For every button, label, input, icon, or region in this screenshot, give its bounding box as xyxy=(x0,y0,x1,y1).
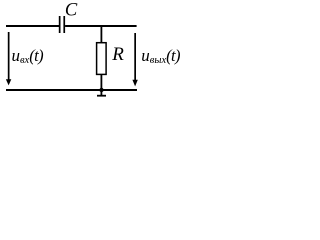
ground xyxy=(97,90,106,97)
wire: bottom (common) xyxy=(6,89,137,91)
wire: resistor top lead xyxy=(101,26,103,42)
svg-text:uвх(t): uвх(t) xyxy=(12,46,44,66)
svg-text:C: C xyxy=(65,0,78,20)
wire: top left segment (input node to capacitor) xyxy=(6,25,59,27)
svg-text:uвых(t): uвых(t) xyxy=(141,46,180,66)
output voltage arrow xyxy=(132,33,137,86)
capacitor C xyxy=(59,16,65,33)
resistor R xyxy=(97,43,107,75)
junction node dot xyxy=(99,88,103,92)
input voltage arrow xyxy=(6,32,11,85)
svg-text:R: R xyxy=(111,44,124,65)
wire: top right segment (capacitor to output node) xyxy=(65,25,137,27)
wire: resistor bottom lead xyxy=(101,75,103,91)
